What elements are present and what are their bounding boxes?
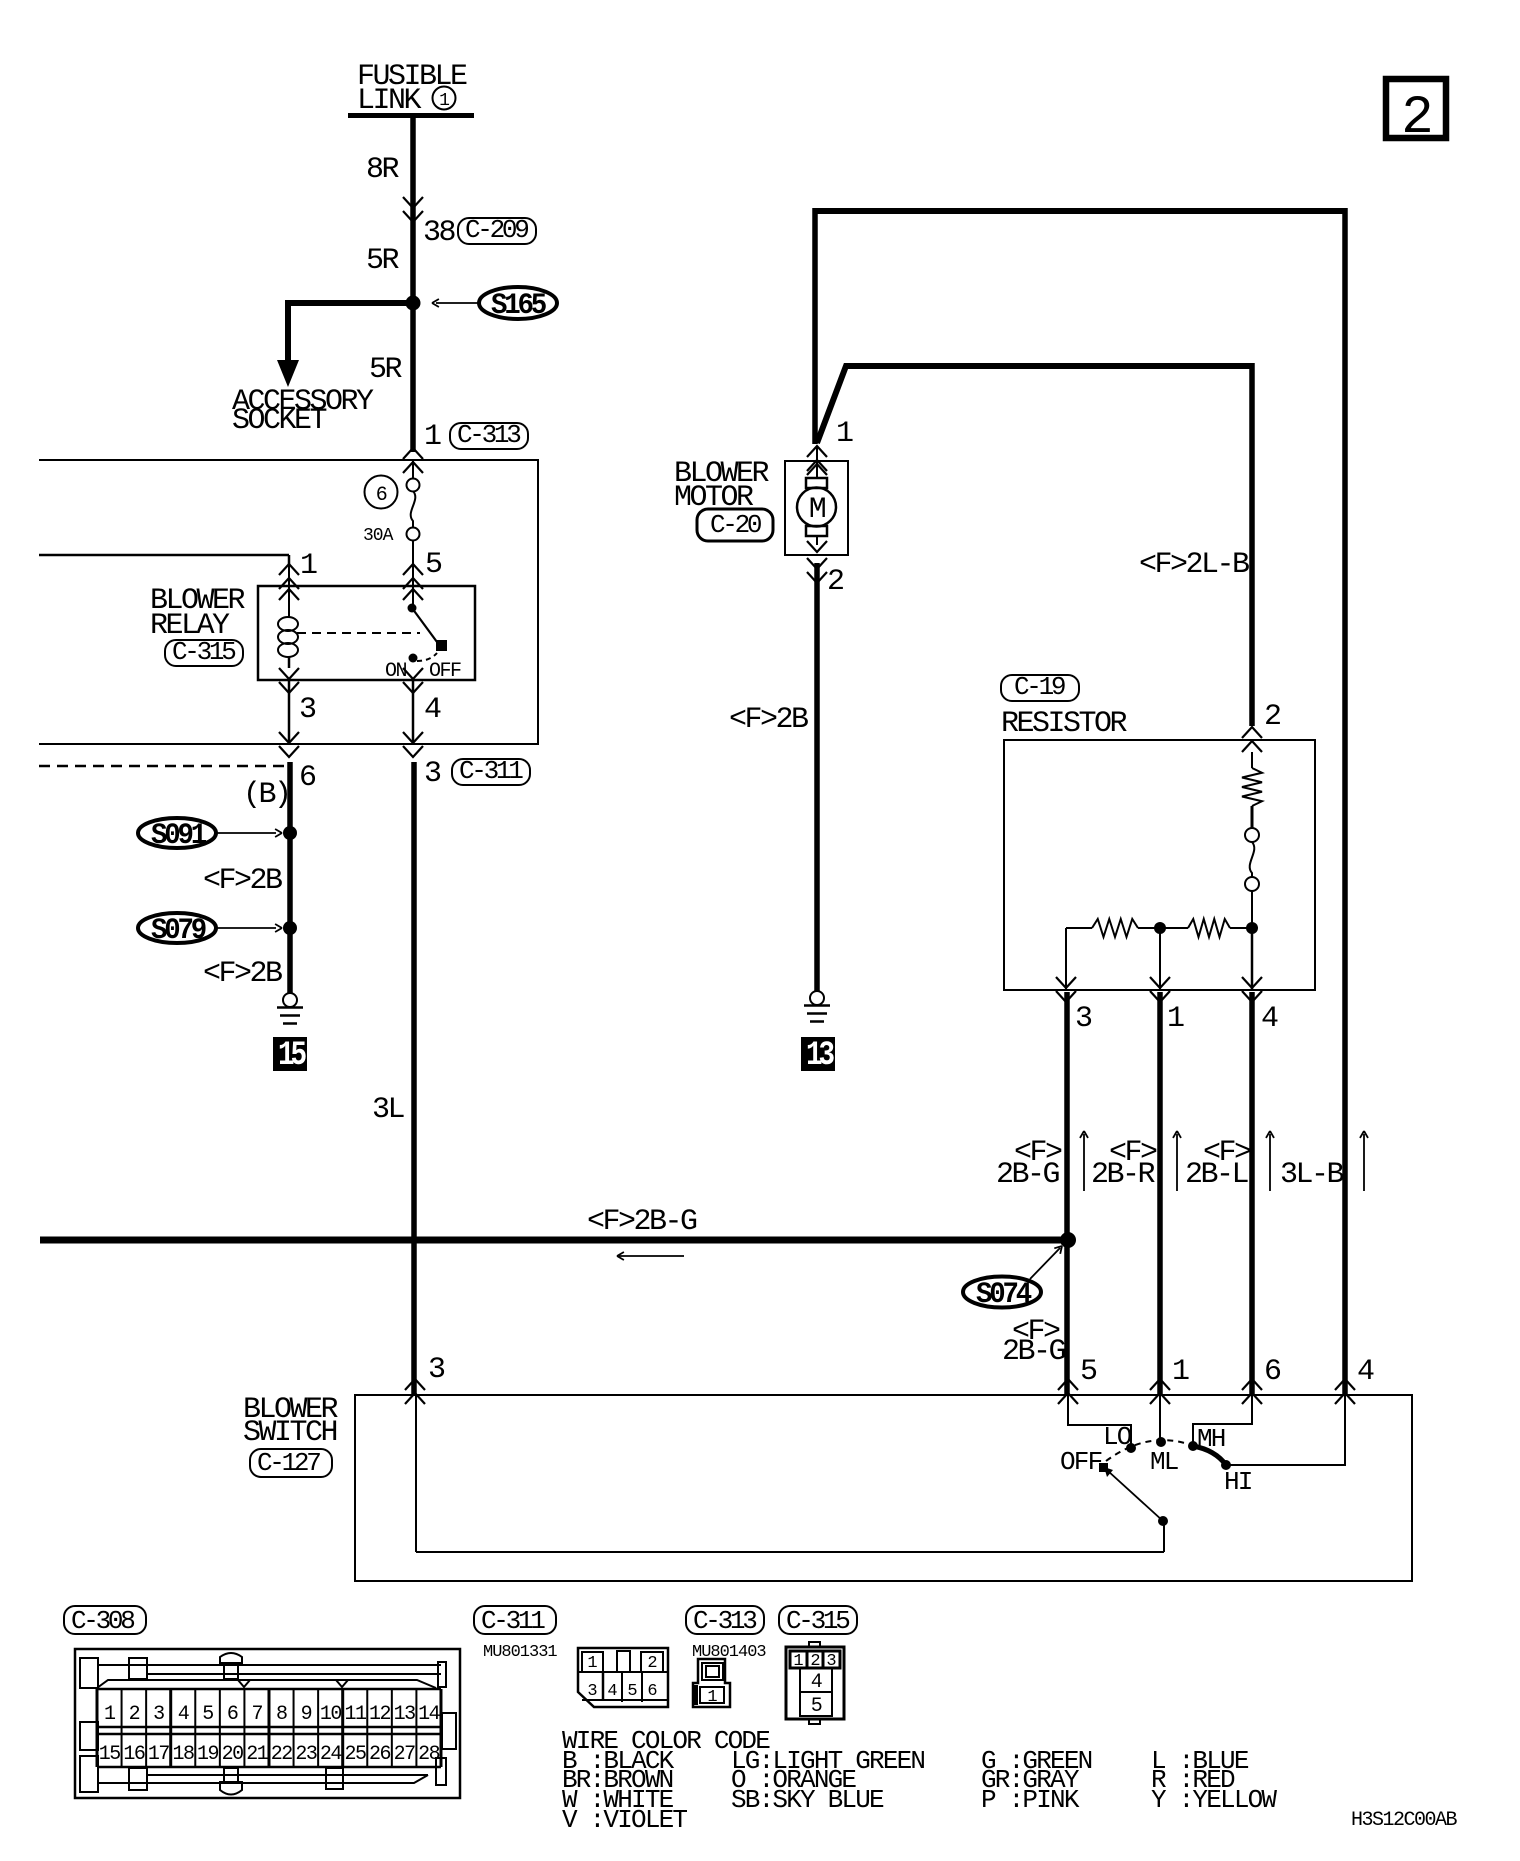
resistor pin 2 entry: [1242, 727, 1262, 738]
connector C-313 arrows: [403, 448, 423, 459]
wire down to motor pin 1: [812, 208, 818, 444]
svg-text:30A: 30A: [363, 526, 394, 546]
svg-text:SOCKET: SOCKET: [232, 404, 327, 438]
svg-text:5: 5: [425, 548, 442, 582]
connector C-209 pass-through: [403, 197, 423, 208]
svg-text:1: 1: [1167, 1002, 1184, 1036]
svg-text:1: 1: [1172, 1355, 1189, 1389]
svg-text:14: 14: [418, 1703, 440, 1726]
svg-text:3L: 3L: [372, 1093, 405, 1127]
splice S091: [138, 818, 216, 848]
svg-text:18: 18: [172, 1743, 194, 1766]
svg-text:OFF: OFF: [429, 660, 461, 683]
resistor pin 3: [1065, 928, 1067, 990]
wire to relay pin 5: [403, 564, 423, 575]
svg-text:25: 25: [344, 1743, 366, 1766]
svg-text:SWITCH: SWITCH: [243, 1416, 337, 1450]
svg-text:3: 3: [153, 1703, 164, 1726]
C-308 bottom rails: [147, 1774, 428, 1776]
dashed selector arc: [1106, 1440, 1191, 1461]
switch common from pin 3: [415, 1395, 417, 1552]
svg-text:C-313: C-313: [457, 420, 520, 450]
svg-text:3: 3: [299, 693, 316, 727]
svg-text:5: 5: [811, 1695, 822, 1718]
svg-text:13: 13: [806, 1037, 834, 1075]
node pin4: [1246, 922, 1258, 934]
svg-text:C-20: C-20: [710, 510, 761, 540]
svg-text:2B-G: 2B-G: [996, 1158, 1060, 1192]
resistor C-19 label: [1001, 675, 1079, 701]
svg-text:<F>2B: <F>2B: [203, 957, 282, 991]
blower motor box: [807, 446, 827, 457]
svg-text:3: 3: [587, 1682, 597, 1701]
svg-text:5: 5: [627, 1682, 637, 1701]
svg-text:<F>2B: <F>2B: [729, 703, 808, 737]
svg-text:C-308: C-308: [71, 1606, 134, 1636]
blower switch pin 5: [1058, 1379, 1078, 1390]
connector C-308 label: [64, 1606, 146, 1634]
blower switch pin 6: [1242, 1379, 1262, 1390]
svg-text:C-19: C-19: [1014, 672, 1065, 702]
svg-text:H3S12C00AB: H3S12C00AB: [1351, 1809, 1458, 1832]
svg-text:Y :YELLOW: Y :YELLOW: [1151, 1785, 1277, 1815]
svg-text:10: 10: [320, 1703, 342, 1726]
svg-text:4: 4: [424, 693, 441, 727]
connector C-315 label: [779, 1606, 857, 1634]
svg-text:4: 4: [1357, 1355, 1374, 1389]
svg-text:1: 1: [439, 91, 449, 111]
switch pin1 internal: [1159, 1395, 1161, 1439]
wire branch to accessory socket: [288, 303, 413, 362]
svg-text:5R: 5R: [369, 353, 403, 387]
svg-text:38: 38: [423, 216, 456, 250]
svg-text:21: 21: [246, 1743, 269, 1766]
blower relay box: [258, 586, 475, 680]
svg-text:4: 4: [178, 1703, 189, 1726]
svg-text:M: M: [809, 493, 826, 527]
svg-text:P :PINK: P :PINK: [981, 1785, 1080, 1815]
svg-text:1: 1: [300, 549, 317, 583]
svg-text:1: 1: [424, 420, 441, 454]
ground 15: [283, 993, 297, 1007]
svg-text:LINK: LINK: [357, 84, 422, 118]
resistor element R1: [1242, 768, 1262, 806]
svg-text:17: 17: [148, 1743, 170, 1766]
svg-text:6: 6: [376, 484, 387, 507]
svg-text:ML: ML: [1150, 1447, 1178, 1477]
svg-text:8: 8: [276, 1703, 287, 1726]
relay switch contacts: [412, 540, 414, 606]
dashed junction block lower boundary: [39, 765, 292, 768]
svg-text:OFF: OFF: [1060, 1447, 1102, 1477]
svg-text:<F>2B: <F>2B: [203, 864, 282, 898]
splice S074: [1060, 1232, 1076, 1248]
svg-text:2: 2: [647, 1654, 656, 1673]
svg-text:ON: ON: [385, 660, 407, 683]
svg-text:S165: S165: [491, 289, 546, 323]
wire 8R from fusible link: [410, 118, 416, 303]
svg-text:12: 12: [369, 1703, 391, 1726]
svg-text:RESISTOR: RESISTOR: [1001, 707, 1128, 741]
svg-text:C-315: C-315: [786, 1606, 849, 1636]
wire 5R to C-313: [410, 303, 416, 452]
svg-text:4: 4: [1261, 1002, 1278, 1036]
svg-text:23: 23: [295, 1743, 317, 1766]
motor pin 2: [807, 558, 827, 569]
svg-text:SB:SKY BLUE: SB:SKY BLUE: [731, 1785, 884, 1815]
resistor pin 4: [1251, 928, 1254, 990]
svg-text:<F>2B-G: <F>2B-G: [587, 1205, 697, 1239]
blower switch box: [355, 1395, 1412, 1581]
wire 2L-B top run: [815, 208, 1345, 214]
svg-text:S074: S074: [976, 1278, 1032, 1312]
wire (F)2B motor to ground: [814, 563, 820, 991]
svg-text:6: 6: [1264, 1355, 1281, 1389]
svg-text:1: 1: [836, 417, 853, 451]
resistor pin 1: [1159, 928, 1161, 990]
svg-text:3: 3: [428, 1353, 445, 1387]
svg-text:4: 4: [607, 1682, 617, 1701]
blower switch pin 3 arrows: [405, 1379, 425, 1390]
MH contact dot: [1188, 1441, 1198, 1451]
resistor box: [1004, 740, 1315, 990]
svg-text:22: 22: [271, 1743, 293, 1766]
resistor element R3: [1160, 927, 1188, 929]
svg-text:1: 1: [707, 1688, 717, 1707]
connector C-308 housing: [75, 1649, 460, 1798]
svg-text:19: 19: [197, 1743, 219, 1766]
wire (F)2B to ground: [287, 762, 293, 994]
svg-text:3: 3: [1075, 1002, 1092, 1036]
ground 13: [810, 991, 824, 1005]
relay dashed actuation line: [297, 632, 420, 634]
wire motor to resistor pin 2: [817, 366, 1252, 443]
fuse 6 30A: [412, 460, 414, 478]
switch pin5 internal: [1068, 1395, 1131, 1446]
svg-text:C-209: C-209: [465, 215, 528, 245]
svg-text:5R: 5R: [366, 244, 400, 278]
svg-text:16: 16: [123, 1743, 145, 1766]
wire 3L-B right run down: [1342, 208, 1348, 1395]
page number box 2: [1386, 79, 1446, 138]
resistor element R2: [1066, 927, 1092, 929]
svg-text:8R: 8R: [366, 153, 400, 187]
svg-text:<F>2L-B: <F>2L-B: [1139, 548, 1249, 582]
connector C-311 label: [474, 1606, 556, 1634]
blower switch pin 4: [1335, 1379, 1355, 1390]
svg-text:24: 24: [320, 1743, 342, 1766]
wire 3L: [411, 762, 417, 1395]
splice S165: [479, 287, 557, 319]
svg-text:27: 27: [394, 1743, 416, 1766]
wire (F)2B-R pin1 down: [1157, 992, 1163, 1395]
ML contact: [1156, 1437, 1166, 1447]
svg-text:5: 5: [202, 1703, 213, 1726]
svg-text:C-311: C-311: [459, 756, 523, 786]
svg-text:7: 7: [251, 1703, 262, 1726]
blower switch pin 1: [1150, 1379, 1170, 1390]
svg-text:3: 3: [424, 757, 441, 791]
svg-text:6: 6: [647, 1682, 657, 1701]
svg-text:4: 4: [811, 1671, 822, 1694]
svg-text:9: 9: [301, 1703, 312, 1726]
thermal fuse: [1245, 828, 1259, 842]
wire to relay pin 1: [39, 554, 289, 557]
svg-text:(B): (B): [243, 778, 290, 812]
relay coil: [288, 566, 290, 618]
svg-text:1: 1: [104, 1703, 116, 1726]
connector C-311 housing: [578, 1648, 668, 1707]
OFF contact: [1099, 1463, 1108, 1472]
switch pin4 internal: [1230, 1395, 1345, 1465]
svg-text:6: 6: [227, 1703, 238, 1726]
junction node S165 dot: [406, 296, 421, 311]
svg-text:HI: HI: [1224, 1467, 1252, 1497]
wire (F)2B-G resistor pin3 down: [1064, 992, 1070, 1395]
svg-text:6: 6: [299, 761, 316, 795]
switch pin6 internal: [1193, 1395, 1252, 1444]
svg-text:13: 13: [394, 1703, 416, 1726]
connector C-313 housing: [693, 1659, 730, 1707]
fusible link bus bar: [348, 113, 474, 118]
svg-text:C-313: C-313: [693, 1606, 756, 1636]
svg-text:S079: S079: [151, 914, 206, 948]
svg-text:C-127: C-127: [257, 1448, 320, 1478]
svg-text:2: 2: [1264, 700, 1280, 734]
svg-text:1: 1: [587, 1654, 597, 1673]
connector C-313 label: [686, 1606, 764, 1634]
svg-text:MU801331: MU801331: [483, 1643, 557, 1662]
connector C-315 housing: [786, 1647, 844, 1719]
svg-text:15: 15: [278, 1037, 306, 1075]
junction block outline: [39, 460, 538, 744]
MH-HI thick arc: [1193, 1446, 1226, 1465]
motor symbol M: [816, 446, 818, 478]
svg-text:2: 2: [827, 565, 843, 599]
svg-text:2: 2: [129, 1703, 140, 1726]
relay pin 3: [279, 668, 299, 679]
svg-text:S091: S091: [151, 819, 206, 853]
svg-text:5: 5: [1080, 1355, 1097, 1389]
svg-text:C-315: C-315: [172, 637, 235, 667]
svg-text:11: 11: [344, 1703, 367, 1726]
svg-text:V :VIOLET: V :VIOLET: [562, 1805, 687, 1835]
svg-text:3L-B: 3L-B: [1280, 1158, 1344, 1192]
svg-text:26: 26: [369, 1743, 391, 1766]
wire (F)2B-G horizontal: [40, 1237, 1068, 1244]
svg-text:20: 20: [222, 1743, 244, 1766]
svg-text:MH: MH: [1197, 1424, 1225, 1454]
relay pin 4: [403, 668, 423, 679]
svg-text:C-311: C-311: [481, 1606, 545, 1636]
wire (F)2B-L pin4 down: [1249, 992, 1255, 1395]
switch wiper: [1158, 1516, 1168, 1526]
LO contact: [1126, 1443, 1136, 1453]
svg-text:15: 15: [99, 1743, 121, 1766]
svg-text:LO: LO: [1103, 1422, 1132, 1452]
splice S079: [138, 913, 216, 943]
svg-text:2B-L: 2B-L: [1185, 1158, 1249, 1192]
svg-text:2B-G: 2B-G: [1002, 1335, 1066, 1369]
HI contact: [1221, 1460, 1231, 1470]
svg-text:2B-R: 2B-R: [1091, 1158, 1156, 1192]
node between R2 R3: [1154, 922, 1166, 934]
svg-text:2: 2: [1401, 88, 1430, 149]
